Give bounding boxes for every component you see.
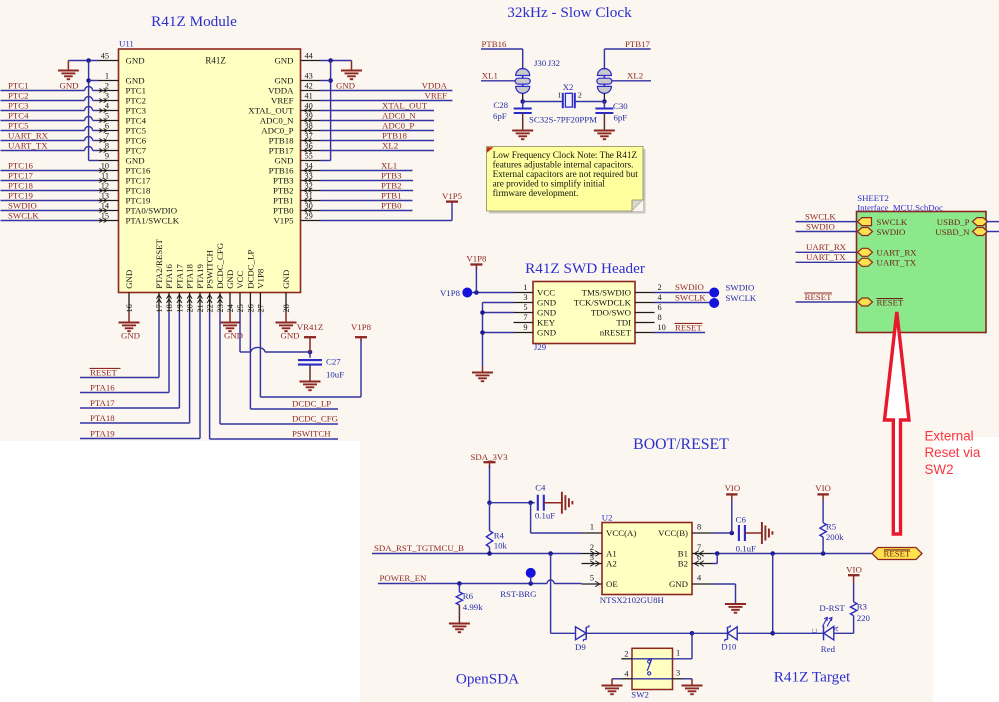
svg-text:XTAL_OUT: XTAL_OUT (248, 105, 294, 115)
svg-text:GND: GND (537, 327, 556, 337)
svg-text:SW2: SW2 (925, 462, 954, 477)
svg-text:7: 7 (697, 543, 701, 552)
svg-text:10uF: 10uF (326, 370, 344, 380)
svg-text:External capacitors are not re: External capacitors are not required but (493, 169, 639, 179)
svg-text:VREF: VREF (271, 95, 294, 105)
svg-text:GND: GND (336, 80, 355, 90)
svg-text:B1: B1 (678, 548, 688, 558)
svg-text:GND: GND (126, 75, 145, 85)
svg-text:PTB0: PTB0 (273, 205, 294, 215)
svg-text:features adjustable internal c: features adjustable internal capacitors. (493, 160, 634, 170)
svg-text:VCC: VCC (537, 287, 555, 297)
svg-text:25: 25 (236, 304, 245, 312)
svg-text:C: C (810, 628, 819, 633)
svg-text:PTC1: PTC1 (8, 80, 29, 90)
svg-text:GND: GND (274, 55, 293, 65)
svg-text:7: 7 (105, 131, 109, 140)
svg-text:XL2: XL2 (382, 140, 398, 150)
svg-text:PTC6: PTC6 (126, 135, 147, 145)
svg-text:45: 45 (101, 51, 109, 60)
svg-text:PTC3: PTC3 (126, 105, 147, 115)
svg-text:R41Z SWD Header: R41Z SWD Header (525, 260, 645, 277)
svg-text:R3: R3 (857, 602, 868, 612)
svg-text:B2: B2 (678, 558, 688, 568)
svg-text:PTB3: PTB3 (273, 175, 294, 185)
svg-text:V1P8: V1P8 (466, 254, 487, 264)
svg-text:UART_RX: UART_RX (806, 242, 847, 252)
svg-text:DCDC_LP: DCDC_LP (292, 399, 331, 409)
svg-text:VIO: VIO (846, 564, 862, 574)
svg-text:1: 1 (558, 91, 562, 100)
svg-text:44: 44 (305, 51, 314, 60)
svg-text:SC32S-7PF20PPM: SC32S-7PF20PPM (529, 115, 597, 125)
svg-text:J29: J29 (534, 342, 547, 352)
svg-text:PTC5: PTC5 (126, 125, 147, 135)
svg-text:XL1: XL1 (482, 71, 498, 81)
svg-text:DCDC_LP: DCDC_LP (245, 250, 255, 289)
svg-text:VCC: VCC (235, 271, 245, 289)
svg-text:SWCLK: SWCLK (675, 292, 706, 302)
svg-text:D-RST: D-RST (819, 603, 845, 613)
svg-text:9: 9 (523, 323, 527, 332)
svg-text:PTA17: PTA17 (90, 398, 115, 408)
svg-text:3: 3 (523, 293, 527, 302)
svg-text:R41Z: R41Z (205, 56, 226, 66)
svg-text:USBD_P: USBD_P (937, 217, 970, 227)
svg-text:DCDC_CFG: DCDC_CFG (292, 414, 339, 424)
svg-text:GND: GND (280, 331, 299, 341)
svg-text:Low Frequency Clock Note: The: Low Frequency Clock Note: The R41Z (493, 150, 638, 160)
svg-text:U2: U2 (602, 512, 613, 522)
svg-text:PTA19: PTA19 (90, 428, 115, 438)
svg-text:PTC18: PTC18 (126, 185, 152, 195)
svg-text:SW2: SW2 (631, 690, 649, 700)
svg-text:VIO: VIO (815, 483, 831, 493)
svg-text:C4: C4 (535, 482, 546, 492)
svg-text:V1P8: V1P8 (255, 268, 265, 289)
svg-text:R41Z Module: R41Z Module (151, 13, 237, 30)
svg-text:29: 29 (305, 211, 313, 220)
svg-text:PTA0/SWDIO: PTA0/SWDIO (126, 205, 178, 215)
svg-text:VREF: VREF (425, 90, 448, 100)
svg-text:6: 6 (105, 121, 109, 130)
svg-text:2: 2 (578, 91, 582, 100)
svg-text:1: 1 (105, 71, 109, 80)
svg-text:V1P8: V1P8 (440, 288, 461, 298)
svg-text:OpenSDA: OpenSDA (456, 671, 519, 688)
svg-text:J32: J32 (548, 58, 560, 68)
svg-text:C6: C6 (736, 515, 747, 525)
svg-text:SWDIO: SWDIO (8, 200, 37, 210)
svg-text:XL2: XL2 (627, 71, 643, 81)
svg-text:PTB16: PTB16 (482, 39, 508, 49)
svg-text:TDO/SWO: TDO/SWO (591, 307, 631, 317)
svg-text:ADC0_P: ADC0_P (261, 125, 293, 135)
svg-text:PTC7: PTC7 (126, 145, 147, 155)
svg-text:C28: C28 (493, 100, 508, 110)
svg-text:20: 20 (186, 304, 195, 312)
svg-text:PSWITCH: PSWITCH (292, 429, 331, 439)
svg-text:UART_TX: UART_TX (806, 252, 846, 262)
svg-text:PTC19: PTC19 (8, 190, 34, 200)
svg-text:SWDIO: SWDIO (806, 221, 835, 231)
svg-text:DCDC_CFG: DCDC_CFG (215, 242, 225, 289)
svg-text:PTC1: PTC1 (126, 85, 147, 95)
svg-text:GND: GND (126, 155, 145, 165)
svg-text:R4: R4 (494, 531, 505, 541)
svg-text:SWDIO: SWDIO (675, 282, 704, 292)
svg-text:ADC0_N: ADC0_N (382, 110, 416, 120)
svg-text:PSWITCH: PSWITCH (205, 250, 215, 289)
svg-text:3: 3 (676, 669, 680, 678)
svg-text:A2: A2 (606, 558, 617, 568)
svg-text:VDDA: VDDA (422, 80, 448, 90)
svg-text:are provided to simplify initi: are provided to simplify initial (493, 179, 606, 189)
svg-text:GND: GND (59, 80, 78, 90)
svg-text:A1: A1 (606, 548, 617, 558)
svg-text:42: 42 (305, 81, 313, 90)
svg-text:V1P5: V1P5 (442, 191, 463, 201)
svg-text:R6: R6 (463, 591, 474, 601)
svg-text:U11: U11 (119, 39, 134, 49)
svg-text:16: 16 (125, 304, 134, 312)
svg-text:21: 21 (196, 304, 205, 312)
svg-text:2: 2 (105, 81, 109, 90)
svg-text:26: 26 (246, 304, 255, 312)
svg-text:PTA2/RESET: PTA2/RESET (154, 239, 164, 289)
svg-text:POWER_EN: POWER_EN (380, 573, 428, 583)
svg-text:ADC0_P: ADC0_P (382, 120, 414, 130)
svg-text:RST-BRG: RST-BRG (500, 589, 537, 599)
svg-text:GND: GND (537, 297, 556, 307)
svg-text:NTSX2102GU8H: NTSX2102GU8H (600, 595, 665, 605)
svg-text:18: 18 (165, 304, 174, 312)
svg-text:32kHz - Slow Clock: 32kHz - Slow Clock (507, 4, 632, 21)
svg-text:6pF: 6pF (614, 113, 628, 123)
svg-text:27: 27 (256, 304, 265, 312)
svg-text:43: 43 (305, 71, 313, 80)
svg-text:5: 5 (590, 573, 594, 582)
svg-text:VDDA: VDDA (268, 85, 294, 95)
svg-text:BOOT/RESET: BOOT/RESET (633, 436, 729, 453)
svg-text:1: 1 (523, 283, 527, 292)
svg-text:TDI: TDI (616, 317, 631, 327)
svg-text:SWCLK: SWCLK (805, 211, 836, 221)
svg-text:2: 2 (624, 649, 628, 658)
svg-text:1: 1 (590, 522, 594, 531)
svg-text:External: External (925, 429, 974, 444)
svg-text:PTC4: PTC4 (8, 110, 29, 120)
svg-text:0.1uF: 0.1uF (535, 511, 555, 521)
svg-text:GND: GND (537, 307, 556, 317)
svg-text:41: 41 (305, 91, 313, 100)
svg-text:2: 2 (658, 283, 662, 292)
svg-text:UART_RX: UART_RX (8, 130, 49, 140)
svg-text:V1P5: V1P5 (273, 215, 294, 225)
svg-text:PTA18: PTA18 (185, 263, 195, 288)
svg-text:0.1uF: 0.1uF (736, 543, 756, 553)
svg-text:SWCLK: SWCLK (877, 217, 908, 227)
svg-text:PTC16: PTC16 (126, 165, 152, 175)
svg-text:10k: 10k (494, 541, 508, 551)
svg-text:SDA_3V3: SDA_3V3 (471, 452, 509, 462)
svg-text:PTA19: PTA19 (195, 263, 205, 288)
svg-text:9: 9 (105, 151, 109, 160)
svg-text:23: 23 (216, 304, 225, 312)
svg-text:SWCLK: SWCLK (8, 210, 39, 220)
svg-text:Red: Red (821, 644, 836, 654)
svg-text:6: 6 (658, 303, 662, 312)
svg-text:6pF: 6pF (493, 111, 507, 121)
svg-text:VCC(A): VCC(A) (606, 528, 636, 538)
svg-text:PTA16: PTA16 (164, 263, 174, 288)
svg-text:PTA18: PTA18 (90, 413, 115, 423)
svg-text:PTB2: PTB2 (381, 180, 402, 190)
svg-text:PTB17: PTB17 (269, 145, 295, 155)
svg-text:5: 5 (105, 111, 109, 120)
svg-text:VR41Z: VR41Z (297, 322, 323, 332)
svg-text:3: 3 (105, 91, 109, 100)
svg-text:R5: R5 (826, 521, 837, 531)
svg-text:10: 10 (658, 323, 666, 332)
svg-text:5: 5 (523, 303, 527, 312)
svg-text:PTC18: PTC18 (8, 180, 34, 190)
svg-text:R41Z Target: R41Z Target (774, 669, 851, 686)
svg-text:GND: GND (281, 270, 291, 289)
svg-text:8: 8 (658, 313, 662, 322)
svg-text:TCK/SWDCLK: TCK/SWDCLK (574, 297, 632, 307)
svg-text:UART_RX: UART_RX (877, 248, 918, 258)
svg-text:PTC19: PTC19 (126, 195, 152, 205)
svg-text:X2: X2 (563, 82, 574, 92)
svg-text:PTC2: PTC2 (8, 90, 29, 100)
svg-text:VIO: VIO (725, 483, 741, 493)
svg-text:PTC5: PTC5 (8, 120, 29, 130)
svg-text:UART_TX: UART_TX (8, 140, 48, 150)
svg-text:GND: GND (121, 331, 140, 341)
svg-text:SWDIO: SWDIO (877, 227, 906, 237)
svg-text:A: A (831, 626, 840, 632)
svg-text:PTB17: PTB17 (625, 39, 651, 49)
svg-text:PTB2: PTB2 (273, 185, 294, 195)
svg-text:PTB1: PTB1 (273, 195, 294, 205)
svg-text:PTB18: PTB18 (382, 130, 408, 140)
svg-text:PTA1/SWCLK: PTA1/SWCLK (126, 215, 180, 225)
svg-text:8: 8 (105, 141, 109, 150)
svg-text:200k: 200k (826, 532, 844, 542)
svg-text:J30: J30 (534, 58, 547, 68)
svg-text:PTC2: PTC2 (126, 95, 147, 105)
svg-text:17: 17 (155, 304, 164, 312)
svg-text:PTB1: PTB1 (381, 190, 402, 200)
svg-text:PTB18: PTB18 (269, 135, 295, 145)
svg-text:24: 24 (226, 303, 235, 312)
svg-text:USBD_N: USBD_N (935, 227, 970, 237)
svg-text:8: 8 (697, 522, 701, 531)
svg-text:28: 28 (282, 304, 291, 312)
svg-text:PTC17: PTC17 (8, 170, 34, 180)
svg-text:PTA17: PTA17 (174, 263, 184, 288)
svg-text:22: 22 (206, 304, 215, 312)
svg-text:OE: OE (606, 579, 618, 589)
svg-text:SWCLK: SWCLK (726, 293, 757, 303)
svg-text:D10: D10 (721, 642, 737, 652)
svg-text:UART_TX: UART_TX (877, 258, 917, 268)
svg-text:GND: GND (669, 579, 688, 589)
svg-text:4.99k: 4.99k (463, 602, 483, 612)
svg-text:1: 1 (676, 649, 680, 658)
svg-text:PTC17: PTC17 (126, 175, 152, 185)
svg-text:GND: GND (126, 55, 145, 65)
svg-text:SDA_RST_TGTMCU_B: SDA_RST_TGTMCU_B (374, 543, 464, 553)
svg-text:PTB0: PTB0 (381, 200, 402, 210)
svg-text:D9: D9 (575, 642, 586, 652)
svg-text:PTB3: PTB3 (381, 170, 402, 180)
svg-text:PTC16: PTC16 (8, 160, 34, 170)
svg-text:GND: GND (274, 75, 293, 85)
svg-text:PTB16: PTB16 (269, 165, 295, 175)
svg-text:firmware development.: firmware development. (493, 188, 579, 198)
svg-text:PTC3: PTC3 (8, 100, 29, 110)
svg-text:7: 7 (523, 313, 527, 322)
svg-text:19: 19 (175, 304, 184, 312)
svg-text:PTA16: PTA16 (90, 382, 115, 392)
svg-text:V1P8: V1P8 (351, 322, 372, 332)
svg-text:PTC4: PTC4 (126, 115, 147, 125)
svg-text:GND: GND (225, 270, 235, 289)
svg-text:nRESET: nRESET (600, 327, 632, 337)
svg-text:GND: GND (124, 270, 134, 289)
svg-text:SWDIO: SWDIO (726, 283, 755, 293)
svg-text:GND: GND (274, 155, 293, 165)
svg-text:TMS/SWDIO: TMS/SWDIO (582, 287, 631, 297)
svg-text:XTAL_OUT: XTAL_OUT (382, 100, 428, 110)
svg-text:Reset via: Reset via (925, 445, 981, 460)
svg-text:55: 55 (305, 151, 313, 160)
svg-text:C27: C27 (326, 356, 341, 366)
svg-text:KEY: KEY (537, 317, 556, 327)
svg-text:C30: C30 (613, 101, 628, 111)
svg-text:VCC(B): VCC(B) (658, 528, 688, 538)
svg-text:XL1: XL1 (381, 160, 397, 170)
svg-text:ADC0_N: ADC0_N (260, 115, 294, 125)
svg-text:220: 220 (857, 613, 871, 623)
